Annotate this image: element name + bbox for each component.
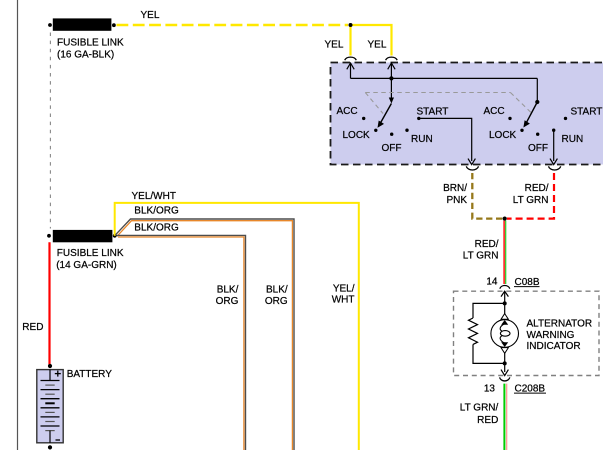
connector cup (RED/LT GRN output) xyxy=(549,166,561,170)
mechanical linkage (dashed) xyxy=(365,93,531,114)
svg-text:RUN: RUN xyxy=(411,134,433,145)
ignition switch box xyxy=(331,63,603,165)
fusible link F1 (16 GA-BLK) xyxy=(48,18,116,30)
wire: internal feed bus xyxy=(351,77,538,79)
svg-text:ORG: ORG xyxy=(265,296,288,307)
wire: feed to wiper 2 xyxy=(536,78,538,101)
connector cup (ignition switch pin 1) xyxy=(345,57,357,60)
svg-text:START: START xyxy=(571,107,603,118)
svg-text:RED/: RED/ xyxy=(475,239,499,250)
svg-text:ALTERNATOR: ALTERNATOR xyxy=(527,319,593,330)
switch 1 contact START xyxy=(417,107,449,121)
wire RED (battery feed) xyxy=(48,242,50,364)
svg-text:YEL/: YEL/ xyxy=(333,284,355,295)
switch 1 contact OFF xyxy=(382,133,402,154)
svg-text:BRN/: BRN/ xyxy=(443,183,467,194)
wire: left vertical bus line xyxy=(17,0,19,450)
svg-text:BLK/: BLK/ xyxy=(266,284,288,295)
wire BRN/PNK dashed xyxy=(472,173,503,219)
node: wiper 2 pivot xyxy=(535,100,539,104)
svg-text:BATTERY: BATTERY xyxy=(67,369,113,380)
svg-text:BLK/ORG: BLK/ORG xyxy=(134,222,179,233)
svg-text:RED: RED xyxy=(477,415,498,426)
wire: bottom junction out of box xyxy=(501,363,508,375)
battery xyxy=(37,364,63,450)
label YEL/ WHT (vertical) xyxy=(332,284,355,306)
svg-text:14: 14 xyxy=(486,276,498,287)
switch 2 contact RUN xyxy=(552,129,583,145)
svg-text:INDICATOR: INDICATOR xyxy=(527,341,581,352)
svg-text:YEL: YEL xyxy=(141,10,160,21)
switch 1 contact RUN xyxy=(405,129,432,145)
connector arrow into box (C08B) xyxy=(501,291,508,303)
svg-text:BLK/ORG: BLK/ORG xyxy=(134,206,179,217)
wire RED/LT GRN (splice to C08B) xyxy=(504,221,506,284)
svg-text:BLK/: BLK/ xyxy=(217,284,239,295)
label BLK/ ORG (vertical wire 1) xyxy=(265,284,288,307)
connector arrow (ignition switch pin 1) xyxy=(347,63,354,78)
wire: top junction to resistor xyxy=(473,303,505,318)
alternator warning indicator box xyxy=(454,291,600,375)
switch 2 contact LOCK xyxy=(489,129,524,141)
svg-text:OFF: OFF xyxy=(528,143,548,154)
svg-text:13: 13 xyxy=(484,383,496,394)
svg-text:RUN: RUN xyxy=(562,134,584,145)
svg-text:ACC: ACC xyxy=(484,106,505,117)
wire BLK/ORG #1 xyxy=(116,219,295,450)
label ALTERNATOR WARNING INDICATOR xyxy=(527,319,593,353)
label LT GRN/ RED xyxy=(460,403,499,426)
wire: dashed link F1 to F2 xyxy=(49,33,51,229)
connector cup (ignition switch pin 2) xyxy=(386,57,398,60)
label BRN/ PNK xyxy=(443,183,467,206)
svg-text:FUSIBLE LINK: FUSIBLE LINK xyxy=(57,37,124,48)
switch 2 contact ACC xyxy=(484,106,512,120)
svg-text:ORG: ORG xyxy=(216,296,239,307)
wire: RUN contact to output (inside box) xyxy=(550,130,557,165)
connector cup (BRN/PNK output) xyxy=(466,166,478,170)
svg-text:LT GRN: LT GRN xyxy=(463,250,499,261)
wire YEL/WHT xyxy=(115,203,359,450)
switch 2 contact START xyxy=(564,107,603,121)
wire YEL (splice to ignition switch pin 1) xyxy=(349,25,351,56)
svg-text:WARNING: WARNING xyxy=(527,330,575,341)
node: indicator bottom junction xyxy=(503,361,507,365)
node: feed junction xyxy=(389,76,393,80)
switch 1 contact ACC xyxy=(337,106,366,120)
svg-text:(14 GA-GRN): (14 GA-GRN) xyxy=(56,260,117,271)
svg-text:START: START xyxy=(417,107,449,118)
indicator lamp xyxy=(491,303,519,363)
switch wiper 2 xyxy=(523,102,537,128)
connector arrow (ignition switch pin 2) xyxy=(388,63,395,100)
label RED/ LT GRN (upper) xyxy=(513,183,549,206)
wire BLK/ORG #2 xyxy=(117,235,246,450)
node: indicator top junction xyxy=(503,301,507,305)
svg-text:RED: RED xyxy=(22,322,43,333)
svg-text:ACC: ACC xyxy=(337,106,358,117)
connector C208B xyxy=(500,377,546,394)
wire: resistor to bottom junction xyxy=(473,344,505,363)
wire RED/LT GRN dashed xyxy=(507,173,554,219)
wire: START contact to output (inside box) xyxy=(419,118,476,164)
wire YEL dashed (fusible link to splice) xyxy=(117,24,349,27)
label BLK/ ORG (vertical wire 2) xyxy=(216,284,239,307)
label: FUSIBLE LINK (14 GA-GRN) xyxy=(56,248,124,271)
arrowhead: feed to wiper 1 xyxy=(389,98,394,104)
connector C08B xyxy=(500,277,540,289)
svg-text:(16 GA-BLK): (16 GA-BLK) xyxy=(57,49,114,60)
svg-text:LT GRN/: LT GRN/ xyxy=(460,403,499,414)
svg-text:OFF: OFF xyxy=(382,143,402,154)
svg-text:YEL/WHT: YEL/WHT xyxy=(132,191,176,202)
label RED/ LT GRN (mid) xyxy=(463,239,499,262)
switch 2 contact OFF xyxy=(528,133,548,154)
svg-text:RED/: RED/ xyxy=(525,183,549,194)
svg-text:YEL: YEL xyxy=(368,40,387,51)
svg-text:WHT: WHT xyxy=(332,295,355,306)
svg-text:YEL: YEL xyxy=(325,40,344,51)
resistor (indicator shunt) xyxy=(469,318,478,344)
fusible link F2 (14 GA-GRN) xyxy=(47,230,117,242)
svg-text:LOCK: LOCK xyxy=(343,130,371,141)
label: FUSIBLE LINK (16 GA-BLK) xyxy=(57,37,124,60)
svg-text:PNK: PNK xyxy=(446,195,467,206)
node: splice BRN-RED junction xyxy=(503,217,507,221)
svg-text:FUSIBLE LINK: FUSIBLE LINK xyxy=(57,248,124,259)
svg-text:LOCK: LOCK xyxy=(489,130,517,141)
wire LT GRN/RED (below C208B) xyxy=(504,384,506,450)
node: splice of YEL wires xyxy=(349,23,353,27)
switch wiper 1 xyxy=(378,104,392,128)
wire YEL (splice to ignition switch pin 2) xyxy=(351,25,392,56)
switch 1 contact LOCK xyxy=(343,129,378,141)
svg-text:LT GRN: LT GRN xyxy=(513,195,549,206)
